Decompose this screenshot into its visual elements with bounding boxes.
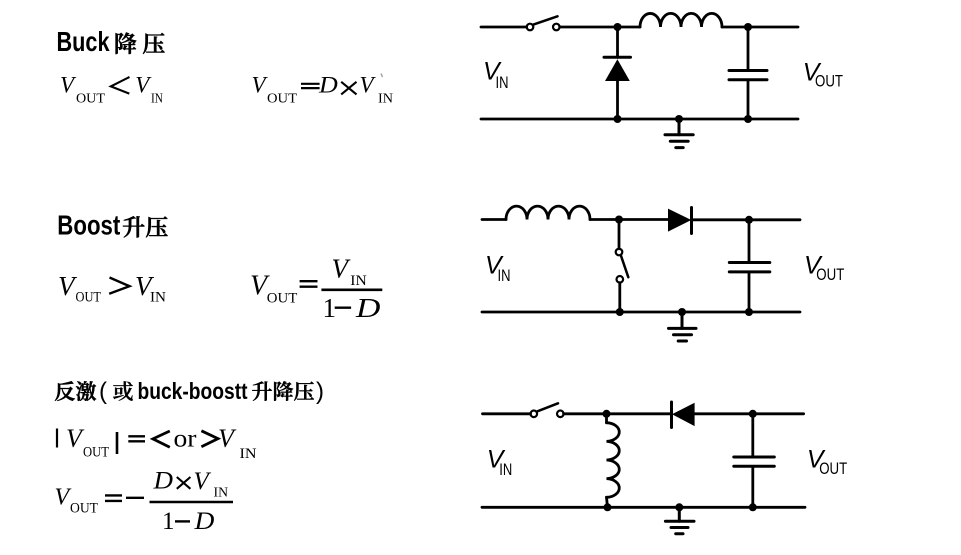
node flyback inductor bottom junction — [604, 503, 612, 511]
node B buck junction (output top) — [744, 23, 752, 31]
wire boost node D to Vout — [749, 218, 800, 221]
svg-text:D: D — [318, 73, 338, 98]
capacitor C2 boost output — [729, 220, 770, 312]
label VOUT flyback — [807, 446, 847, 478]
svg-text:1: 1 — [323, 293, 337, 323]
svg-text:Buck: Buck — [57, 26, 110, 57]
svg-text:OUT: OUT — [819, 459, 847, 478]
label VOUT boost — [804, 252, 844, 284]
node E flyback junction (inductor tap) — [603, 410, 611, 418]
formula buck: Vout &lt; Vin — [60, 72, 163, 106]
formula flyback: |Vout| = &lt; or &gt; Vin — [57, 424, 257, 462]
svg-text:D: D — [193, 507, 214, 535]
wire boost node C to diode — [619, 218, 668, 221]
wire flyback top rail: Vin to switch — [483, 412, 531, 415]
switch S2 boost (open, vertical) — [616, 220, 629, 313]
svg-text:IN: IN — [151, 92, 163, 107]
wire flyback switch to node E — [564, 412, 607, 415]
svg-text:or: or — [174, 425, 198, 452]
diode D3 flyback (cathode left) — [672, 402, 753, 428]
capacitor C1 buck output — [729, 27, 767, 119]
svg-text:1: 1 — [162, 508, 175, 535]
svg-text:OUT: OUT — [76, 92, 105, 107]
svg-text:OUT: OUT — [76, 290, 102, 306]
wire flyback node F to Vout — [753, 412, 804, 415]
wire buck bottom rail — [481, 118, 798, 121]
node buck ground tap junction — [675, 115, 683, 123]
svg-text:buck-boostt: buck-boostt — [138, 378, 248, 404]
node boost ground tap junction — [678, 308, 686, 316]
switch S1 buck (open SPST) — [527, 16, 560, 30]
inductor L1 buck — [640, 13, 722, 27]
ground flyback earth symbol — [665, 507, 694, 534]
svg-text:IN: IN — [378, 92, 393, 107]
label VIN buck — [483, 58, 509, 92]
svg-text:IN: IN — [214, 486, 229, 501]
wire buck inductor to node B — [722, 26, 748, 29]
formula boost: Vout = Vin/(1&#8722;D) — [250, 253, 382, 323]
wire flyback node E to diode — [607, 412, 672, 415]
label VIN boost — [485, 251, 511, 285]
svg-text:OUT: OUT — [815, 72, 843, 91]
formula buck: Vout = D&#215;Vin — [252, 72, 394, 106]
node boost cap bottom junction — [745, 308, 753, 316]
svg-text:IN: IN — [240, 446, 257, 462]
svg-text:D: D — [355, 293, 380, 323]
capacitor C3 flyback output — [734, 414, 775, 508]
wire buck switch to node A — [560, 26, 618, 29]
svg-text:OUT: OUT — [267, 92, 297, 107]
node D boost junction (output top) — [745, 216, 753, 224]
title flyback (buck-boost) — [55, 378, 324, 405]
svg-text:IN: IN — [496, 73, 509, 92]
label VIN flyback — [487, 445, 513, 479]
inductor L3 flyback (vertical winding) — [607, 414, 620, 508]
wire boost bottom rail — [482, 311, 800, 314]
node boost switch bottom junction — [616, 308, 624, 316]
wire boost inductor to node C — [590, 218, 619, 221]
formula flyback: Vout = &#8722;D&#215;Vin/(1&#8722;D) — [55, 466, 234, 535]
inductor L2 boost — [506, 206, 590, 219]
wire buck node A to inductor — [618, 26, 641, 29]
svg-text:D: D — [152, 466, 173, 494]
wire flyback bottom rail — [482, 506, 805, 509]
svg-text:OUT: OUT — [70, 501, 98, 517]
svg-text:V: V — [55, 485, 72, 511]
node F flyback junction (output top) — [749, 410, 757, 418]
svg-text:IN: IN — [499, 460, 512, 479]
node buck cap bottom junction — [744, 115, 752, 123]
diode D1 buck freewheeling (cathode up) — [604, 27, 631, 119]
ground buck earth symbol — [665, 119, 693, 148]
svg-text:IN: IN — [498, 266, 511, 285]
wire buck node B to Vout — [748, 26, 798, 29]
formula boost: Vout &gt; Vin — [58, 271, 166, 306]
label VOUT buck — [803, 58, 843, 90]
node flyback ground tap junction — [675, 503, 683, 511]
svg-text:Boost: Boost — [57, 210, 120, 241]
svg-text:OUT: OUT — [816, 265, 844, 284]
title Boost step-up — [57, 210, 167, 241]
node flyback cap bottom junction — [749, 503, 757, 511]
wire buck top rail: Vin to switch — [481, 26, 527, 29]
svg-text:): ) — [316, 378, 324, 405]
wire boost top rail: Vin to inductor — [482, 218, 506, 221]
svg-text:OUT: OUT — [267, 290, 298, 306]
switch S3 flyback (open SPST) — [531, 403, 564, 417]
node C boost junction (switch/diode tap) — [615, 216, 623, 224]
ground boost earth symbol — [669, 312, 697, 341]
diode D2 boost (conducting right) — [668, 208, 749, 234]
svg-text:(: ( — [99, 378, 107, 405]
node A buck junction (diode/inductor tap) — [614, 23, 622, 31]
node buck diode bottom junction — [614, 115, 622, 123]
svg-text:OUT: OUT — [83, 444, 109, 460]
svg-text:IN: IN — [350, 273, 367, 289]
title Buck step-down — [57, 26, 165, 57]
svg-text:IN: IN — [150, 290, 166, 306]
